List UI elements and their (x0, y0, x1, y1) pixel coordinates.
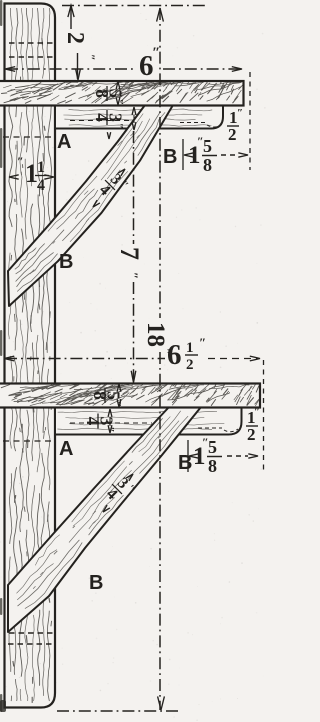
svg-text:8: 8 (208, 456, 217, 476)
hidden dashed line bottom 2 (8, 643, 54, 645)
dim 2 inch arrow up (68, 6, 74, 18)
svg-text:7: 7 (115, 247, 144, 260)
svg-text:5: 5 (208, 437, 217, 457)
label 2 inch (rotated) (62, 32, 98, 61)
svg-text:5: 5 (203, 136, 212, 156)
post (vertical standard) (5, 4, 56, 708)
extension dashed line br1 (shelf end) (249, 72, 251, 170)
svg-text:4: 4 (83, 417, 103, 426)
shelf board S1 (top shelf) (0, 81, 244, 106)
svg-text:B: B (89, 572, 103, 594)
centerline (18 inch) vertical dash-dot (159, 8, 161, 318)
dim 2 inch arrow down (77, 53, 79, 79)
hidden dash under arm A2 end (198, 427, 222, 429)
label 7 inch (rotated) (115, 247, 144, 279)
svg-text:4: 4 (37, 177, 45, 194)
svg-text:2: 2 (228, 125, 237, 144)
arm A1 (horizontal bracket arm, top bracket) (56, 106, 223, 129)
scan edge smudges (0, 0, 6, 712)
brace B1 (diagonal brace, top bracket) (8, 105, 173, 306)
label 3/4 inch arm2 thickness (rotated) (83, 414, 117, 433)
hidden dashed line across post below arm A1 (3, 136, 55, 138)
label 5/8 inch shelf1 thickness (rotated) (92, 86, 126, 105)
svg-text:4: 4 (92, 113, 112, 122)
centerline top arrow (157, 8, 164, 22)
label 1-1/4 inch (17, 154, 49, 194)
hidden dashed line across post below arm A2 (3, 440, 55, 442)
svg-text:18: 18 (142, 322, 169, 347)
dim 1-5/8 br2 right arrow (248, 454, 258, 458)
dim 1-5/8 br2 extension line (187, 440, 189, 472)
dim 1-5/8 br1 dashes (221, 154, 238, 156)
dim 6 inch right arrow (232, 67, 242, 72)
dim 1-5/8 br1 left arrow (184, 153, 194, 157)
dim 3/4 brace1 arrows (93, 200, 100, 207)
svg-text:1: 1 (186, 340, 194, 356)
label 1/2 br1 (227, 107, 243, 144)
label 6-1/2 inch (167, 335, 206, 373)
dim 5/8 shelf1 arrows (116, 82, 120, 90)
svg-text:8: 8 (203, 155, 212, 175)
svg-text:8: 8 (90, 391, 110, 400)
dim 6-1/2 left arrow (4, 356, 14, 361)
dim 7 inch vertical line (133, 131, 135, 244)
dim 6 inch left arrow (5, 67, 15, 72)
label 1-5/8 br2 (193, 435, 222, 476)
svg-text:B: B (59, 251, 73, 273)
label 3/4 inch arm1 thickness (rotated) (92, 110, 126, 129)
svg-text:″: ″ (17, 154, 24, 168)
label 3/4 inch brace2 width (rotated 45) (101, 472, 138, 509)
dim 1-5/8 br1 right arrow (238, 153, 248, 157)
dim 1-5/8 br1 extension line (182, 139, 184, 170)
label 1-5/8 br1 (188, 134, 217, 175)
dim 6-1/2 line (5, 358, 165, 360)
dim 1-5/8 br2 dashes (227, 455, 248, 457)
brace B2 (diagonal brace, bottom bracket) (8, 407, 201, 632)
svg-text:″: ″ (237, 107, 243, 119)
dim 6-1/2 right arrow (250, 356, 260, 361)
svg-text:A: A (57, 131, 71, 153)
dim 3/4 arm2 arrows (108, 409, 112, 417)
svg-text:2: 2 (62, 32, 88, 44)
svg-text:6: 6 (167, 339, 182, 371)
label 1/2 br2 (246, 406, 260, 444)
dim 1-1/4 left arrow (9, 175, 19, 179)
top datum dash-dot line (62, 5, 205, 7)
svg-text:″: ″ (254, 406, 260, 418)
hidden dashed line top 2 (9, 56, 54, 58)
svg-text:B: B (163, 146, 177, 168)
centerline bottom arrow (158, 696, 165, 710)
dim 7 inch bottom arrow (131, 371, 136, 383)
svg-text:″: ″ (84, 54, 98, 61)
extension dashed line br2 (shelf end) (263, 360, 265, 472)
dim 3/4 brace2 arrows (103, 505, 110, 512)
svg-text:A: A (59, 438, 73, 460)
svg-text:2: 2 (247, 425, 256, 444)
dim 3/4 arm1 arrows (132, 107, 136, 115)
dim 1-5/8 br2 left arrow (189, 454, 199, 458)
hidden dashed line bottom 1 (9, 632, 54, 634)
bottom datum dash-dot line (57, 710, 178, 712)
dim 1-1/4 right arrow (44, 175, 54, 179)
label 5/8 inch shelf2 thickness (rotated) (90, 388, 124, 407)
label 18 inch (rotated) (142, 322, 174, 355)
arm A2 (horizontal bracket arm, bottom bracket) (56, 408, 242, 435)
dim 5/8 shelf2 arrows (117, 384, 121, 392)
dim 6 inch line (6, 68, 136, 70)
hidden dash inside arm A1 (70, 120, 140, 122)
svg-text:2: 2 (186, 357, 194, 373)
svg-text:8: 8 (92, 89, 112, 98)
hidden dashed line top 1 (9, 42, 54, 44)
shelf board S2 (bottom shelf) (0, 384, 260, 408)
svg-text:″: ″ (113, 123, 125, 129)
svg-text:1: 1 (37, 159, 45, 176)
svg-text:″: ″ (111, 401, 123, 407)
svg-text:″: ″ (126, 272, 141, 279)
label 3/4 inch brace1 width (rotated 45) (94, 168, 131, 205)
svg-text:″: ″ (199, 335, 206, 350)
svg-text:″: ″ (152, 45, 160, 61)
hidden dash under arm A1 end (180, 122, 205, 124)
hidden dash inside arm A2 (70, 422, 152, 424)
